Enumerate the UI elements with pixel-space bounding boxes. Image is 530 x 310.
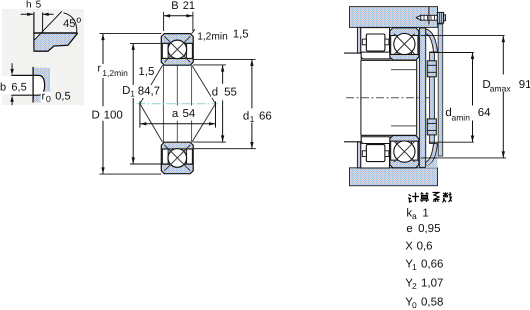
top ball contact X (164, 36, 190, 62)
label d 55 (211, 84, 238, 98)
locknut upper: nut body (366, 34, 385, 51)
r0 label white box (41, 92, 51, 103)
dimension b: top arrow (11, 63, 13, 70)
svg-text:r: r (97, 63, 101, 75)
housing right wall strip (438, 24, 443, 156)
right bearing upper: ring block (390, 28, 419, 60)
svg-text:e: e (406, 223, 412, 235)
dimension D: line (interrupted by text) (102, 34, 104, 107)
svg-text:o: o (76, 15, 81, 25)
cover lip corner fill bottom (426, 151, 438, 168)
svg-text:1,07: 1,07 (421, 278, 443, 290)
title glyph shu (number) (443, 192, 452, 202)
dimension Damax: line + arrows (502, 36, 504, 75)
locknut upper: left tab (362, 39, 366, 45)
svg-text:66: 66 (259, 110, 272, 122)
svg-text:0,66: 0,66 (421, 258, 443, 270)
cover plate column (430, 52, 435, 144)
svg-text:h: h (26, 0, 32, 11)
cover lip curved band bottom (426, 144, 438, 167)
abutment ring upper (hatched strip) (357, 27, 360, 53)
silhouette verticals between sections (162, 65, 164, 142)
grub screw: head nub (444, 15, 446, 21)
locknut lower: washer band (361, 137, 390, 144)
shaft shoulder surface lower (344, 141, 361, 143)
chamfer detail: left face extension line (33, 12, 35, 52)
svg-text:d: d (243, 110, 249, 122)
tapped hole edge in housing (428, 7, 430, 25)
svg-text:91: 91 (519, 79, 530, 91)
bottom section: outer+inner ring block (161, 142, 193, 174)
dimension B line with arrows (164, 15, 193, 17)
shaft axis centerline (346, 97, 434, 99)
svg-text:0,5: 0,5 (55, 90, 70, 102)
chamfer detail: h extension line (42, 13, 44, 34)
svg-text:X: X (405, 241, 413, 253)
locknut upper: outer block (361, 28, 390, 53)
svg-text:0: 0 (46, 94, 51, 104)
svg-text:84,7: 84,7 (138, 86, 160, 98)
bottom ball contact X (164, 145, 190, 171)
dimension D extension lines (100, 33, 162, 35)
svg-text:64: 64 (478, 107, 491, 119)
shaft end face (416, 60, 418, 135)
svg-text:55: 55 (224, 87, 237, 99)
upper ball (394, 33, 415, 54)
svg-text:b: b (0, 82, 6, 94)
dimension d1 extension lines (193, 58, 255, 60)
locknut upper: right tab (385, 39, 389, 45)
shaft surface lower (361, 134, 417, 136)
svg-text:0,95: 0,95 (418, 223, 440, 235)
grub screw: cone tip (416, 15, 421, 20)
dimension Damax: extension lines (421, 35, 505, 37)
svg-text:0: 0 (412, 300, 417, 310)
bottom section cage slots (162, 149, 168, 164)
bottom ball (168, 149, 187, 168)
grub screw: threaded shank (421, 15, 438, 20)
svg-text:amin: amin (452, 113, 471, 123)
svg-text:1: 1 (422, 208, 428, 220)
dimension damin: line + arrows (472, 53, 474, 106)
svg-text:1: 1 (412, 262, 417, 272)
title glyph ji (calculate) (408, 193, 419, 203)
groove white band (0, 76, 40, 95)
svg-text:D: D (92, 109, 100, 121)
label D1 84,7 (122, 85, 163, 98)
svg-text:6,5: 6,5 (11, 82, 26, 94)
gray steel background patch of detail views (2, 9, 84, 105)
svg-text:0,6: 0,6 (417, 241, 433, 253)
chamfer leader 1,2min (192, 29, 196, 33)
dimension B: extension lines (163, 12, 165, 31)
locknut lower: nut body (366, 145, 385, 162)
locknut lower: left tab (362, 151, 366, 157)
locknut upper: washer band (361, 52, 390, 59)
contact line lower-left (140, 104, 163, 143)
dimension b: bottom arrow (11, 100, 13, 105)
lower ball (394, 141, 415, 162)
cover lip column (419, 28, 425, 167)
dimension a: right extension (215, 102, 217, 128)
housing bottom band (350, 168, 438, 186)
svg-text:r: r (42, 90, 46, 102)
svg-text:amax: amax (490, 84, 512, 94)
label d1 66 (242, 109, 273, 123)
housing top band (350, 7, 438, 28)
horizontal centerline (cyan dash-dot) (137, 103, 219, 105)
dimension a line with outward arrows (140, 123, 216, 125)
contact line lower-right (192, 104, 216, 143)
contact line upper-left (140, 65, 163, 104)
title glyph suan (count) (420, 192, 429, 202)
ring OD edge line (32, 67, 34, 103)
svg-text:0,58: 0,58 (421, 297, 443, 309)
locknut lower: right tab (385, 151, 389, 157)
shaft relief line lower (391, 125, 417, 127)
abutment ring lower (hatched strip) (357, 142, 360, 168)
label a 54 (169, 106, 197, 121)
grub screw: hex head (437, 12, 443, 23)
cover bolt upper (427, 61, 436, 77)
locknut left face lower (360, 135, 362, 142)
title glyph xi (system) (433, 193, 440, 203)
shaft step face (360, 60, 362, 135)
chamfer detail: surface line (33, 32, 77, 34)
svg-text:1: 1 (130, 89, 135, 99)
dimension D1 extension lines (130, 42, 161, 44)
svg-text:1,2min: 1,2min (197, 32, 228, 43)
svg-text:100: 100 (104, 109, 123, 121)
svg-text:d: d (212, 87, 218, 99)
svg-text:1: 1 (250, 114, 255, 124)
chamfer detail: bottom profile outline (34, 33, 77, 51)
svg-text:2: 2 (412, 281, 417, 291)
locknut lower: outer block (361, 143, 390, 168)
top section cage slots (162, 44, 168, 59)
cover bolt lower (427, 119, 436, 135)
right bearing lower: ring block (390, 136, 419, 168)
svg-text:1,5: 1,5 (138, 66, 154, 78)
bottom section race boundary lines (161, 148, 193, 150)
shaft shoulder surface upper (344, 52, 361, 54)
shaft surface upper (361, 59, 417, 61)
svg-text:54: 54 (183, 108, 196, 120)
svg-text:5: 5 (36, 0, 42, 11)
dimension D1: line (132, 43, 134, 163)
svg-text:1,5: 1,5 (233, 29, 249, 41)
top section race boundary lines (161, 42, 193, 44)
top ball (168, 40, 187, 59)
label r 1,2min left (97, 64, 132, 78)
chamfer detail: 45 degree chamfer line (35, 11, 62, 40)
dimension h: left arrow (21, 13, 33, 15)
dimension damin: extension lines (430, 52, 474, 54)
dimension d extension lines (193, 64, 226, 66)
contact line upper-right (192, 65, 216, 104)
svg-text:D: D (122, 85, 130, 97)
svg-text:B: B (171, 0, 178, 12)
top section: outer+inner ring block (161, 34, 193, 66)
svg-text:a: a (172, 108, 179, 120)
cover lip curved band top (426, 29, 438, 52)
svg-text:21: 21 (183, 0, 195, 12)
snap ring groove detail: ring section (blue) (34, 68, 51, 103)
chamfer detail: ring corner cross-section (blue) (34, 33, 77, 51)
locknut left face upper (360, 53, 362, 60)
svg-text:1,2min: 1,2min (102, 68, 128, 78)
svg-text:a: a (412, 211, 417, 221)
dimension a: left extension (139, 102, 141, 128)
dimension h: right arrow (43, 13, 54, 15)
shaft relief line upper (391, 69, 417, 71)
45 degree leader arc (64, 13, 77, 33)
groove outline with rounded bottom (11, 75, 44, 95)
dimension d1: line (251, 59, 253, 108)
dimension d: line (222, 65, 224, 84)
